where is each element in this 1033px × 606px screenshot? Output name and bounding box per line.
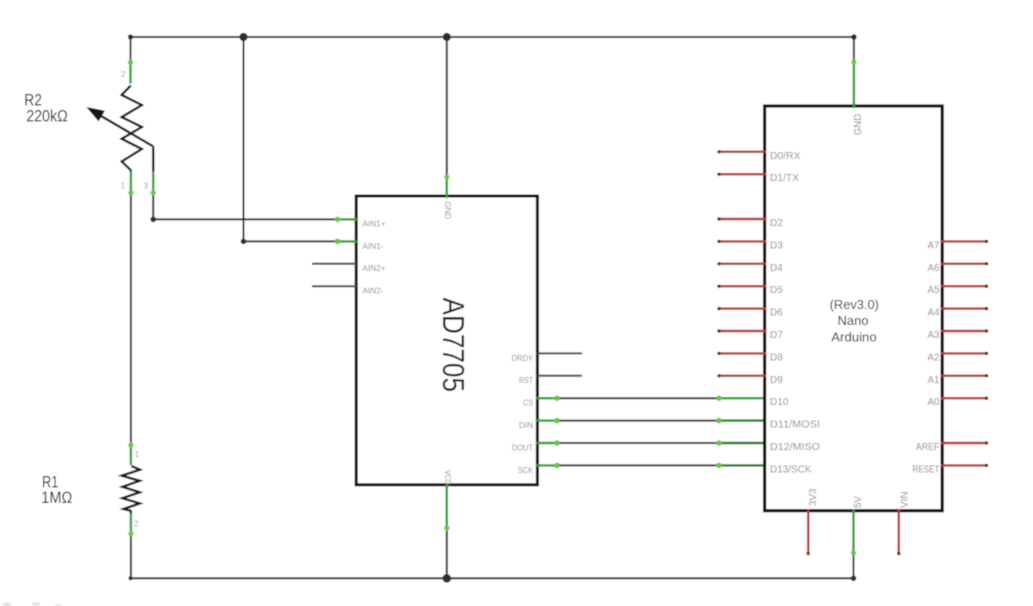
svg-text:220kΩ: 220kΩ — [26, 107, 68, 125]
pin AD7705 VCC leg — [444, 484, 449, 531]
pin D6 stub — [717, 307, 766, 310]
svg-text:D3: D3 — [770, 240, 783, 251]
svg-text:2: 2 — [134, 520, 139, 529]
svg-text:AREF: AREF — [916, 442, 940, 453]
svg-text:DRDY: DRDY — [512, 353, 534, 363]
pin D2 stub — [717, 217, 766, 220]
svg-text:D6: D6 — [770, 308, 783, 319]
wire pot pin3 to AIN1+ — [153, 195, 335, 219]
wire AD7705 VCC to bottom bus — [446, 531, 448, 579]
pin Arduino 5V leg — [851, 509, 856, 556]
wire SCK to D13 — [536, 463, 766, 469]
pin 3V3 stub — [807, 509, 810, 555]
svg-text:A2: A2 — [928, 352, 940, 363]
pin AIN1- leg — [335, 239, 358, 245]
node pot pin3 corner — [150, 217, 156, 223]
svg-text:A0: A0 — [928, 397, 940, 408]
node junction VCC on bottom bus — [443, 574, 452, 583]
svg-text:1: 1 — [135, 450, 140, 459]
pin AREF stub — [941, 441, 989, 444]
svg-text:D9: D9 — [770, 375, 783, 386]
potentiometer R2 — [88, 59, 156, 195]
svg-text:A4: A4 — [928, 308, 940, 319]
pin RESET stub — [941, 464, 989, 467]
pin D9 stub — [717, 374, 766, 377]
svg-text:D1/TX: D1/TX — [770, 173, 799, 184]
wire left rail (pot pin1 to R1) — [130, 37, 132, 578]
svg-text:DIN: DIN — [519, 420, 533, 430]
node bottom bus right corner — [851, 576, 857, 582]
svg-text:(Rev3.0): (Rev3.0) — [830, 298, 879, 312]
wire CS to D10 — [536, 395, 766, 401]
pin D7 stub — [717, 329, 766, 332]
svg-text:A3: A3 — [928, 330, 940, 341]
pin A5 stub — [941, 285, 989, 288]
node bottom bus left corner — [129, 576, 133, 580]
pin AIN2- stub — [312, 285, 357, 287]
pin A3 stub — [941, 329, 989, 332]
pin A1 stub — [941, 374, 989, 377]
pin DRDY stub — [537, 352, 582, 354]
svg-text:CS: CS — [523, 398, 533, 408]
pin AIN1+ leg — [335, 217, 358, 223]
svg-text:AIN2-: AIN2- — [363, 286, 384, 296]
svg-text:AIN2+: AIN2+ — [363, 263, 386, 273]
svg-text:VIN: VIN — [899, 492, 910, 508]
svg-text:A5: A5 — [928, 285, 940, 296]
resistor R1 — [122, 442, 140, 536]
pin D1/TX stub — [717, 173, 766, 176]
pin Arduino GND leg — [851, 59, 856, 108]
svg-text:D12/MISO: D12/MISO — [770, 442, 820, 453]
svg-text:5V: 5V — [853, 496, 864, 508]
wire 5V to bottom bus — [853, 556, 855, 578]
svg-text:SCK: SCK — [518, 465, 533, 475]
wire DIN to D11 — [536, 418, 766, 424]
svg-text:AIN1-: AIN1- — [363, 241, 384, 251]
pin VIN stub — [897, 509, 900, 555]
svg-text:2: 2 — [121, 70, 126, 79]
pin AD7705 GND leg — [444, 174, 449, 197]
svg-text:AD7705: AD7705 — [436, 298, 470, 393]
svg-text:3: 3 — [144, 182, 149, 191]
svg-text:Arduino: Arduino — [831, 331, 877, 345]
svg-text:D4: D4 — [770, 263, 783, 274]
pin D5 stub — [717, 285, 766, 288]
svg-text:VCC: VCC — [443, 470, 453, 485]
pin A2 stub — [941, 352, 989, 355]
pin A6 stub — [941, 262, 989, 265]
label R2 220kΩ — [24, 91, 68, 125]
IC U1 AD7705 — [356, 196, 537, 485]
svg-text:D2: D2 — [770, 218, 783, 229]
svg-text:D0/RX: D0/RX — [770, 151, 801, 162]
svg-text:D5: D5 — [770, 285, 783, 296]
node junction GND on top bus — [443, 33, 451, 41]
node top bus left corner — [128, 34, 133, 39]
node top bus right corner — [851, 34, 857, 40]
svg-text:1: 1 — [121, 182, 126, 191]
pin D3 stub — [717, 240, 766, 243]
node junction AIN1- on top bus — [239, 33, 247, 41]
svg-text:Nano: Nano — [838, 314, 869, 328]
svg-text:GND: GND — [853, 114, 864, 136]
pin A4 stub — [941, 307, 989, 310]
pin AIN2+ stub — [312, 263, 357, 265]
svg-text:D7: D7 — [770, 330, 783, 341]
svg-text:GND: GND — [443, 202, 453, 220]
svg-text:DOUT: DOUT — [512, 442, 534, 452]
wire top bus — [131, 36, 854, 38]
svg-text:A1: A1 — [928, 375, 940, 386]
pin A7 stub — [941, 240, 989, 243]
pin D4 stub — [717, 262, 766, 265]
svg-text:1MΩ: 1MΩ — [41, 489, 72, 507]
pin RST stub — [537, 375, 582, 377]
wire Arduino GND branch — [853, 37, 855, 59]
pin A0 stub — [941, 397, 989, 400]
wire bottom bus — [131, 577, 854, 579]
wire AD7705 GND branch — [446, 37, 448, 174]
module U2 Arduino Nano — [765, 106, 943, 511]
label R1 1MΩ — [41, 474, 72, 507]
wire AIN1- branch — [244, 37, 336, 241]
svg-text:3V3: 3V3 — [808, 488, 819, 506]
node AIN1- corner — [241, 239, 247, 245]
svg-text:AIN1+: AIN1+ — [363, 218, 386, 228]
svg-text:D13/SCK: D13/SCK — [770, 464, 812, 475]
svg-text:A6: A6 — [928, 263, 940, 274]
svg-text:D8: D8 — [770, 352, 783, 363]
svg-text:A7: A7 — [928, 240, 940, 251]
svg-text:RST: RST — [519, 375, 534, 385]
svg-text:D10: D10 — [770, 397, 789, 408]
pin D8 stub — [717, 352, 766, 355]
wire DOUT to D12 — [536, 440, 766, 446]
svg-text:D11/MOSI: D11/MOSI — [770, 420, 820, 431]
svg-text:RESET: RESET — [913, 464, 940, 475]
pin D0/RX stub — [717, 150, 766, 153]
